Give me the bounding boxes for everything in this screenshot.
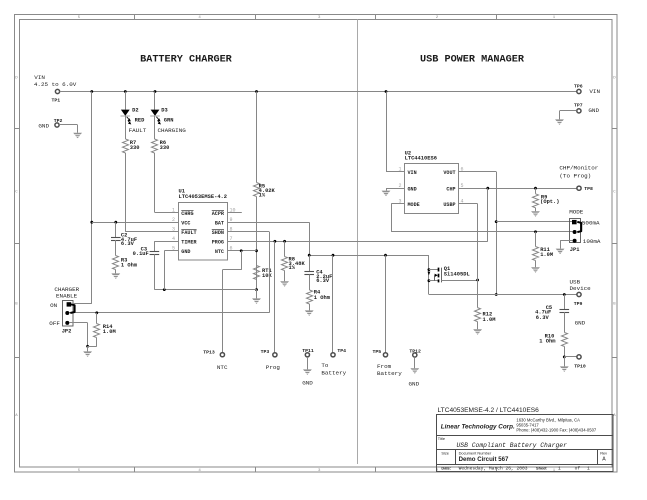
ground R11 — [531, 261, 540, 273]
svg-text:RED: RED — [135, 118, 145, 124]
svg-text:NTC: NTC — [217, 364, 228, 371]
U1 pin 10 ACPR — [212, 207, 242, 217]
svg-text:BATTERY CHARGER: BATTERY CHARGER — [140, 54, 233, 65]
svg-text:4.25 to 6.0V: 4.25 to 6.0V — [34, 81, 77, 88]
label USB Device — [570, 278, 592, 291]
U1 pin 5 GND — [169, 246, 191, 256]
U1 pin 7 PROG — [212, 236, 237, 246]
resistor R11 1.0M — [533, 232, 554, 261]
wire R5 to NTC node — [255, 197, 258, 292]
wire USB device line — [429, 293, 577, 296]
svg-text:TP1: TP1 — [52, 97, 61, 103]
test point TP8 — [577, 186, 593, 192]
svg-text:TP11: TP11 — [302, 348, 314, 354]
wire JP2 OFF to ground — [69, 323, 97, 348]
svg-text:1: 1 — [587, 466, 590, 472]
svg-text:FAULT: FAULT — [181, 230, 196, 236]
title block document number — [441, 450, 607, 463]
wire JP2 ON to VIN — [71, 303, 92, 305]
U2 pin 3 MODE — [395, 199, 420, 209]
wire VIN down to VCC and charger-enable ON — [90, 92, 93, 304]
svg-text:GND: GND — [409, 381, 420, 388]
svg-text:MODE: MODE — [408, 202, 420, 208]
svg-text:LTC4053EMSE-4.2 / LTC4410ES6: LTC4053EMSE-4.2 / LTC4410ES6 — [438, 407, 540, 414]
svg-text:100mA: 100mA — [583, 238, 601, 245]
test point TP7 GND — [574, 102, 599, 114]
test point TP5 From Battery — [373, 349, 403, 377]
svg-text:SHDN: SHDN — [212, 230, 224, 236]
resistor R9 (Opt.) — [533, 188, 560, 208]
resistor R4 1 Ohm — [307, 275, 331, 305]
wire PROG to TP3 — [274, 241, 276, 352]
wire VIN to D3 — [154, 92, 156, 110]
jumper JP2 — [49, 301, 74, 335]
wire CHP down to PROG — [487, 188, 489, 241]
U1 pin 4 TIMER — [169, 236, 198, 246]
resistor R7 330 — [123, 139, 140, 153]
svg-text:TP2: TP2 — [54, 118, 63, 124]
svg-text:Demo Circuit 567: Demo Circuit 567 — [459, 456, 509, 463]
svg-text:GND: GND — [408, 187, 417, 193]
svg-text:Prog: Prog — [266, 364, 281, 371]
svg-text:CHP: CHP — [446, 187, 455, 193]
resistor R12 1.0M — [475, 308, 496, 324]
svg-text:Linear Technology Corp.: Linear Technology Corp. — [441, 424, 515, 431]
test point TP12 GND — [409, 348, 421, 357]
ground JP2 — [83, 346, 92, 357]
svg-text:GRN: GRN — [164, 118, 174, 124]
svg-text:MODE: MODE — [569, 209, 584, 216]
svg-text:CHARGING: CHARGING — [158, 127, 187, 134]
wire TP2 to ground — [59, 125, 77, 133]
svg-text:1 Ohm: 1 Ohm — [121, 263, 138, 269]
wire battery node rail — [308, 254, 429, 257]
test point TP1 — [52, 89, 61, 103]
wire VIN rail — [60, 90, 577, 93]
ground R9 — [531, 208, 540, 217]
svg-text:D2: D2 — [132, 107, 138, 113]
resistor R8 3.48K 1% — [282, 241, 306, 271]
svg-text:3: 3 — [172, 227, 175, 233]
U1 pin 9 BAT — [215, 217, 237, 227]
svg-text:CHRG: CHRG — [181, 211, 193, 217]
wire R7 to FAULT pin 3 — [125, 153, 178, 232]
wire U2 GND pin 2 — [386, 188, 405, 190]
svg-text:GND: GND — [575, 320, 586, 327]
U2 pin 5 CHP — [446, 183, 468, 193]
svg-text:D3: D3 — [161, 107, 167, 113]
transistor Q1 Si1405DL — [428, 266, 470, 282]
svg-text:From: From — [377, 363, 392, 370]
svg-text:GND: GND — [38, 123, 49, 130]
svg-text:Wednesday, March 26, 2003: Wednesday, March 26, 2003 — [459, 466, 528, 472]
wire VIN rail to U2 pin 1 — [386, 92, 395, 172]
wire battery node to TP5 — [385, 255, 387, 352]
svg-text:1%: 1% — [259, 193, 266, 199]
U1 pin 8 SHDN — [212, 227, 237, 237]
svg-text:TP4: TP4 — [337, 348, 346, 354]
svg-text:10K: 10K — [262, 273, 272, 279]
resistor RT1 10K — [254, 266, 273, 280]
wire D2 to R7 — [125, 116, 127, 139]
svg-text:ACPR: ACPR — [212, 211, 225, 217]
wire D3 to R6 — [154, 116, 156, 139]
svg-text:Sheet: Sheet — [536, 466, 547, 471]
jumper JP1 — [570, 219, 601, 254]
test point TP10 — [574, 355, 586, 370]
wire SHDN pin 8 to enable jumper — [69, 232, 270, 315]
test point TP6 VIN — [574, 83, 600, 95]
svg-text:NTC: NTC — [215, 249, 224, 255]
svg-text:VCC: VCC — [181, 221, 190, 227]
svg-text:Date:: Date: — [441, 466, 451, 471]
svg-text:JP1: JP1 — [570, 247, 580, 253]
wire ground bus — [154, 288, 256, 291]
U2 pin 4 USBP — [443, 199, 468, 209]
section divider line — [357, 19, 359, 464]
svg-text:1%: 1% — [289, 265, 296, 271]
svg-text:Size: Size — [441, 451, 449, 456]
wire BAT pin 9 — [227, 222, 309, 255]
op-amp U1 LTC4053EMSE-4.2 body — [179, 189, 228, 261]
wire battery rail down to Q1 — [428, 255, 431, 294]
ground R3 — [111, 270, 120, 279]
wire TIMER pin 4 to C3 — [154, 241, 178, 251]
svg-text:TP10: TP10 — [574, 364, 586, 370]
resistor R6 330 — [152, 139, 170, 153]
ground JP1 — [556, 249, 565, 255]
ground TP10 — [560, 357, 569, 372]
label CHARGER ENABLE — [54, 286, 79, 299]
node VIN input label — [34, 74, 77, 88]
svg-text:(Opt.): (Opt.) — [540, 199, 559, 205]
label CHP/Monitor — [559, 165, 598, 180]
wire R10 to TP10 — [563, 347, 577, 359]
ground R12 — [473, 322, 482, 335]
svg-text:GND: GND — [181, 249, 190, 255]
U1 pin 1 CHRG — [169, 207, 194, 217]
wire VOUT to JP1 500mA pin — [496, 221, 572, 223]
svg-text:of: of — [575, 466, 581, 472]
svg-text:ON: ON — [50, 302, 58, 309]
title block title — [438, 436, 567, 449]
svg-text:VIN: VIN — [589, 88, 600, 95]
ground U2 — [382, 188, 391, 196]
wire battery node to TP4 — [332, 255, 334, 352]
wire VIN to R5 — [256, 92, 258, 183]
svg-text:1.0M: 1.0M — [540, 252, 553, 258]
title block company — [441, 417, 597, 432]
LED D3 GRN — [150, 107, 173, 124]
wire U2 MODE pin 3 to JP1 — [391, 204, 572, 234]
svg-text:TIMER: TIMER — [181, 240, 197, 246]
svg-text:GND: GND — [588, 107, 599, 114]
svg-text:Device: Device — [570, 285, 592, 292]
wire NTC pin 6 — [227, 249, 256, 252]
resistor R10 1 Ohm — [539, 312, 567, 346]
ground TP7 — [555, 119, 564, 125]
svg-text:USB POWER MANAGER: USB POWER MANAGER — [420, 54, 525, 65]
wire NTC to TP13 — [222, 251, 241, 353]
svg-text:CHP/Monitor: CHP/Monitor — [559, 165, 598, 172]
svg-text:PROG: PROG — [212, 240, 224, 246]
svg-text:VIN: VIN — [408, 170, 417, 176]
op-amp U2 LTC4410ES6 body — [405, 150, 459, 213]
svg-text:ENABLE: ENABLE — [56, 292, 78, 299]
svg-text:TP8: TP8 — [584, 186, 593, 192]
svg-text:1: 1 — [172, 207, 175, 213]
wire USBP pin 4 down to R12 — [459, 204, 478, 308]
svg-text:BAT: BAT — [215, 221, 224, 227]
svg-text:1.0M: 1.0M — [103, 329, 116, 335]
ground TP2 — [73, 133, 82, 139]
svg-text:1 Ohm: 1 Ohm — [539, 339, 556, 345]
wire TP7 to ground — [560, 111, 577, 120]
svg-text:GND: GND — [302, 380, 313, 387]
wire JP1 100mA pin to ground — [560, 241, 573, 249]
svg-text:330: 330 — [130, 145, 140, 151]
wire U2 VOUT pin 6 down — [459, 172, 498, 296]
svg-text:TP6: TP6 — [574, 83, 583, 89]
svg-text:OFF: OFF — [49, 320, 60, 327]
capacitor C3 0.1uF — [133, 246, 160, 256]
svg-text:TP12: TP12 — [409, 348, 421, 354]
resistor R14 1.0M — [94, 313, 116, 347]
test point TP13 NTC — [203, 349, 228, 371]
test point TP4 To Battery — [321, 348, 346, 376]
svg-text:FAULT: FAULT — [129, 127, 147, 134]
capacitor C5 4.7uF 6.3V — [535, 295, 569, 321]
svg-text:330: 330 — [160, 145, 170, 151]
ground TP12 — [409, 357, 420, 387]
wire VCC pin 2 — [92, 221, 179, 224]
wire VIN to D2 — [125, 92, 127, 110]
svg-text:1: 1 — [399, 166, 402, 172]
svg-text:LTC4410ES6: LTC4410ES6 — [405, 156, 437, 162]
wire Q1 gate to USBP — [441, 279, 479, 282]
svg-text:1.0M: 1.0M — [483, 317, 496, 323]
svg-text:VIN: VIN — [34, 74, 45, 81]
svg-text:A: A — [602, 457, 606, 463]
resistor R5 4.02K 1% — [254, 183, 276, 199]
svg-text:TP3: TP3 — [261, 349, 270, 355]
U1 pin 6 NTC — [215, 246, 237, 256]
svg-text:USB Compliant Battery Charger: USB Compliant Battery Charger — [457, 442, 568, 449]
svg-text:TP9: TP9 — [574, 301, 583, 307]
svg-text:6.3V: 6.3V — [316, 278, 330, 284]
U1 pin 3 FAULT — [169, 227, 197, 237]
ground R4 — [305, 304, 314, 316]
svg-text:6.3V: 6.3V — [121, 241, 135, 247]
svg-text:6.3V: 6.3V — [536, 315, 550, 321]
capacitor C2 4.7uF 6.3V — [111, 222, 137, 247]
test point TP2 — [38, 118, 62, 129]
svg-text:0.1uF: 0.1uF — [133, 251, 149, 257]
ground R8 — [280, 271, 289, 287]
svg-text:Battery: Battery — [321, 369, 346, 376]
svg-text:JP2: JP2 — [62, 329, 72, 335]
svg-text:1 Ohm: 1 Ohm — [314, 295, 331, 301]
svg-text:Phone: (408)432-1900 Fax: (408: Phone: (408)432-1900 Fax: (408)434-0507 — [516, 427, 597, 432]
test point TP9 — [574, 292, 583, 307]
wire PROG pin 7 across to USB section — [227, 240, 488, 243]
wire C3 to ground bus — [154, 254, 156, 289]
test point TP3 Prog — [261, 349, 281, 371]
title block date row — [441, 466, 590, 472]
svg-text:USBP: USBP — [443, 202, 455, 208]
test point TP11 GND — [302, 348, 314, 357]
svg-text:500mA: 500mA — [582, 219, 600, 226]
svg-text:TP7: TP7 — [574, 102, 583, 108]
wire R6 to CHRG pin 1 — [155, 153, 179, 213]
U2 pin 2 GND — [395, 183, 417, 193]
svg-text:1: 1 — [558, 466, 561, 472]
wire GND pin 5 drop — [164, 251, 178, 290]
svg-text:Rev: Rev — [600, 451, 607, 456]
svg-text:LTC4053EMSE-4.2: LTC4053EMSE-4.2 — [179, 194, 228, 200]
LED D2 RED — [121, 107, 146, 124]
ground TP11 — [302, 357, 313, 387]
resistor R3 1 Ohm — [113, 240, 138, 270]
U2 pin 6 VOUT — [443, 166, 468, 176]
svg-text:VOUT: VOUT — [443, 170, 455, 176]
svg-text:Si1405DL: Si1405DL — [444, 272, 470, 278]
svg-text:TP5: TP5 — [373, 349, 382, 355]
svg-text:Document Number: Document Number — [459, 450, 492, 455]
U1 pin 2 VCC — [169, 217, 191, 227]
svg-text:To: To — [321, 362, 329, 369]
ground RT1 — [252, 290, 261, 304]
wire U2 CHP pin 5 to TP8 — [459, 187, 577, 190]
capacitor C4 2.2uF 6.3V — [304, 255, 332, 284]
svg-text:(To Prog): (To Prog) — [559, 172, 591, 179]
U2 pin 1 VIN — [395, 166, 417, 176]
title block frame — [437, 415, 614, 472]
svg-text:Title: Title — [438, 436, 445, 441]
svg-text:Battery: Battery — [377, 370, 402, 377]
svg-text:10: 10 — [230, 207, 236, 213]
svg-text:TP13: TP13 — [203, 349, 215, 355]
